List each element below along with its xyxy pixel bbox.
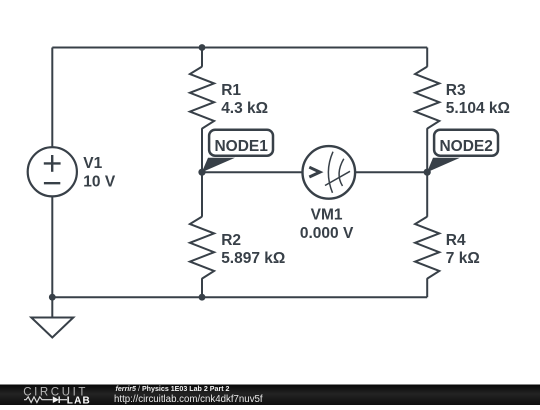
wire left vertical lower (51, 196, 53, 297)
svg-text:5.897 kΩ: 5.897 kΩ (221, 250, 285, 267)
wire middle vertical R2 lead bottom (201, 278, 203, 297)
junction dot node2 (424, 169, 431, 176)
svg-text:V1: V1 (83, 155, 102, 172)
resistor R3 (415, 67, 439, 129)
voltmeter VM1 (303, 146, 356, 199)
svg-text:http://circuitlab.com/cnk4dkf7: http://circuitlab.com/cnk4dkf7nuv5f (114, 394, 263, 405)
label R4 value (446, 232, 480, 267)
label R2 value (221, 232, 285, 267)
wire ground stub (51, 297, 53, 317)
resistor R2 (190, 217, 214, 279)
wire middle vertical R1 lead top (201, 48, 203, 67)
svg-text:R4: R4 (446, 232, 466, 249)
junction dot bottom middle (199, 294, 206, 301)
label V1 value (83, 155, 116, 191)
wire right vertical node to R4 (426, 172, 428, 217)
node NODE2 flag (427, 130, 498, 173)
svg-text:NODE1: NODE1 (214, 138, 268, 155)
voltage source V1 (28, 147, 77, 196)
svg-text:LAB: LAB (67, 395, 91, 405)
svg-text:7 kΩ: 7 kΩ (446, 250, 480, 267)
logo CircuitLab (23, 387, 91, 407)
ground (31, 318, 73, 338)
wire right vertical R4 lead bottom (426, 278, 428, 297)
label R3 value (446, 82, 510, 117)
wire right vertical R3 lead top (426, 48, 428, 67)
label R1 value (221, 82, 268, 117)
svg-text:VM1: VM1 (311, 206, 343, 223)
wire top horizontal (52, 47, 427, 49)
wire left vertical upper (51, 48, 53, 148)
svg-text:R1: R1 (221, 82, 241, 99)
junction dot top middle (199, 44, 206, 51)
wire middle vertical node to R2 (201, 172, 203, 217)
wire middle vertical R1 lead bottom to node (201, 128, 203, 172)
resistor R4 (415, 217, 439, 279)
junction dot node1 (198, 169, 205, 176)
wire middle horizontal node1 to voltmeter (202, 171, 303, 173)
wire bottom horizontal (52, 296, 427, 298)
svg-text:R3: R3 (446, 82, 466, 99)
wire right vertical R3 lead bottom to node (426, 128, 428, 172)
svg-text:5.104 kΩ: 5.104 kΩ (446, 100, 510, 117)
node NODE1 flag (202, 130, 273, 173)
svg-text:4.3 kΩ: 4.3 kΩ (221, 100, 268, 117)
junction dot bottom left (49, 294, 56, 301)
svg-text:0.000 V: 0.000 V (300, 225, 354, 242)
label VM1 value (300, 206, 354, 242)
wire middle horizontal voltmeter to node2 (355, 171, 428, 173)
svg-text:NODE2: NODE2 (439, 138, 492, 155)
svg-text:ferrir5 / Physics 1E: ferrir5 / Physics 1E03 Lab 2 Part 2 (116, 385, 230, 393)
resistor R1 (190, 67, 214, 129)
svg-text:R2: R2 (221, 232, 241, 249)
svg-text:10 V: 10 V (83, 174, 116, 191)
